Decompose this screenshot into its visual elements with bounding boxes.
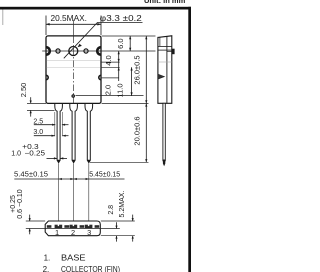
dimension 20.5MAX extension line right (100, 16, 102, 36)
leader underline (98, 21, 143, 23)
mounting hole (phi 3.3) (69, 47, 78, 56)
pin 3 (85, 104, 93, 163)
pitch dimension line (14, 178, 124, 180)
svg-text:3.0: 3.0 (33, 129, 43, 136)
leader diagonal with arrow (64, 22, 98, 58)
svg-text:5.45±0.15: 5.45±0.15 (14, 170, 48, 179)
svg-text:4.0: 4.0 (104, 55, 113, 65)
svg-text:1.0: 1.0 (11, 150, 21, 157)
right extension lines bottom view (101, 220, 135, 222)
svg-text:5.45±0.15: 5.45±0.15 (89, 170, 120, 179)
faint mold step lines (47, 59, 101, 61)
svg-text:1: 1 (55, 228, 59, 237)
dimension 2.50 left (27, 102, 46, 104)
dimension 6.0 (129, 36, 131, 51)
side view body (158, 36, 172, 104)
svg-text:3: 3 (87, 228, 91, 237)
dimension 20.5MAX extension line left (45, 16, 47, 36)
border frame top line (0, 7, 191, 10)
svg-text:26.0±0.5: 26.0±0.5 (132, 55, 141, 84)
svg-text:BASE: BASE (61, 253, 86, 262)
svg-text:1.: 1. (44, 253, 51, 262)
lower hole reference line (76, 95, 144, 97)
right edge notch (97, 47, 101, 55)
svg-text:2: 2 (71, 228, 75, 237)
side view lead tip (163, 160, 165, 167)
side view inner face line (166, 36, 168, 103)
svg-text:6.0: 6.0 (116, 38, 125, 48)
dimension 20.0+-0.6 (145, 103, 147, 162)
svg-text:5.2MAX.: 5.2MAX. (119, 191, 126, 218)
dimension 20.5MAX line (46, 23, 101, 25)
side view lead (163, 103, 165, 161)
pin tips dark (57, 160, 60, 163)
border frame left stub (2, 10, 4, 26)
svg-text:COLLECTOR (FIN): COLLECTOR (FIN) (61, 265, 120, 272)
dimension 26.0+-0.5 (145, 36, 147, 103)
extension line lead tips (90, 161, 149, 163)
svg-text:20.5MAX.: 20.5MAX. (51, 14, 88, 23)
bottom view mid line (45, 228, 100, 230)
right extension line step B (102, 66, 120, 68)
svg-text:+0.25: +0.25 (10, 195, 17, 213)
right extension line top edge (102, 35, 156, 37)
dimension 5.2MAX (132, 215, 134, 221)
pin1 projection lines (54, 112, 56, 136)
lower right notch (99, 75, 101, 79)
side view wedge notch (158, 74, 164, 79)
svg-text:2.50: 2.50 (19, 83, 28, 98)
pin 1 (55, 104, 63, 163)
svg-text:2.8: 2.8 (108, 205, 115, 215)
side view boss (172, 49, 175, 55)
lower notch reference line (101, 77, 119, 79)
dimension 2.8 (116, 222, 118, 228)
svg-text:2.0: 2.0 (103, 85, 112, 95)
svg-text:φ3.3 ±0.2: φ3.3 ±0.2 (100, 14, 143, 23)
side view tab face line (159, 37, 161, 46)
svg-text:Unit: in mm: Unit: in mm (144, 0, 186, 5)
pin block notches (58, 225, 90, 227)
small hole left (56, 49, 60, 53)
svg-text:2.: 2. (43, 265, 50, 272)
right extension line bottom edge (102, 102, 149, 104)
lower left notch (46, 75, 48, 79)
side view step line (158, 61, 172, 63)
dimension 11.0 (131, 67, 133, 95)
pin centerlines down to bottom view (58, 164, 60, 236)
svg-text:−0.25: −0.25 (25, 150, 46, 157)
dimension 4.0 and 2.0 lines (118, 51, 120, 81)
front view vertical centerline (73, 20, 75, 36)
left edge notch (46, 47, 50, 55)
side view tab bottom lines (158, 45, 172, 47)
lower small hole (71, 94, 75, 98)
pin 2 (70, 104, 78, 163)
hole row centerline (42, 50, 155, 52)
right extension line step A (102, 61, 120, 63)
svg-text:0.6 −0.10: 0.6 −0.10 (17, 189, 24, 218)
left extension lines bottom view (26, 220, 45, 222)
bottom view outline (45, 221, 100, 236)
svg-text:20.0±0.6: 20.0±0.6 (133, 116, 142, 145)
border frame right line (188, 7, 191, 272)
dimension 0.6 (29, 215, 31, 221)
small hole right (84, 49, 88, 53)
front view body (46, 36, 101, 104)
flange section dashes (47, 225, 99, 229)
svg-text:11.0: 11.0 (116, 83, 125, 97)
